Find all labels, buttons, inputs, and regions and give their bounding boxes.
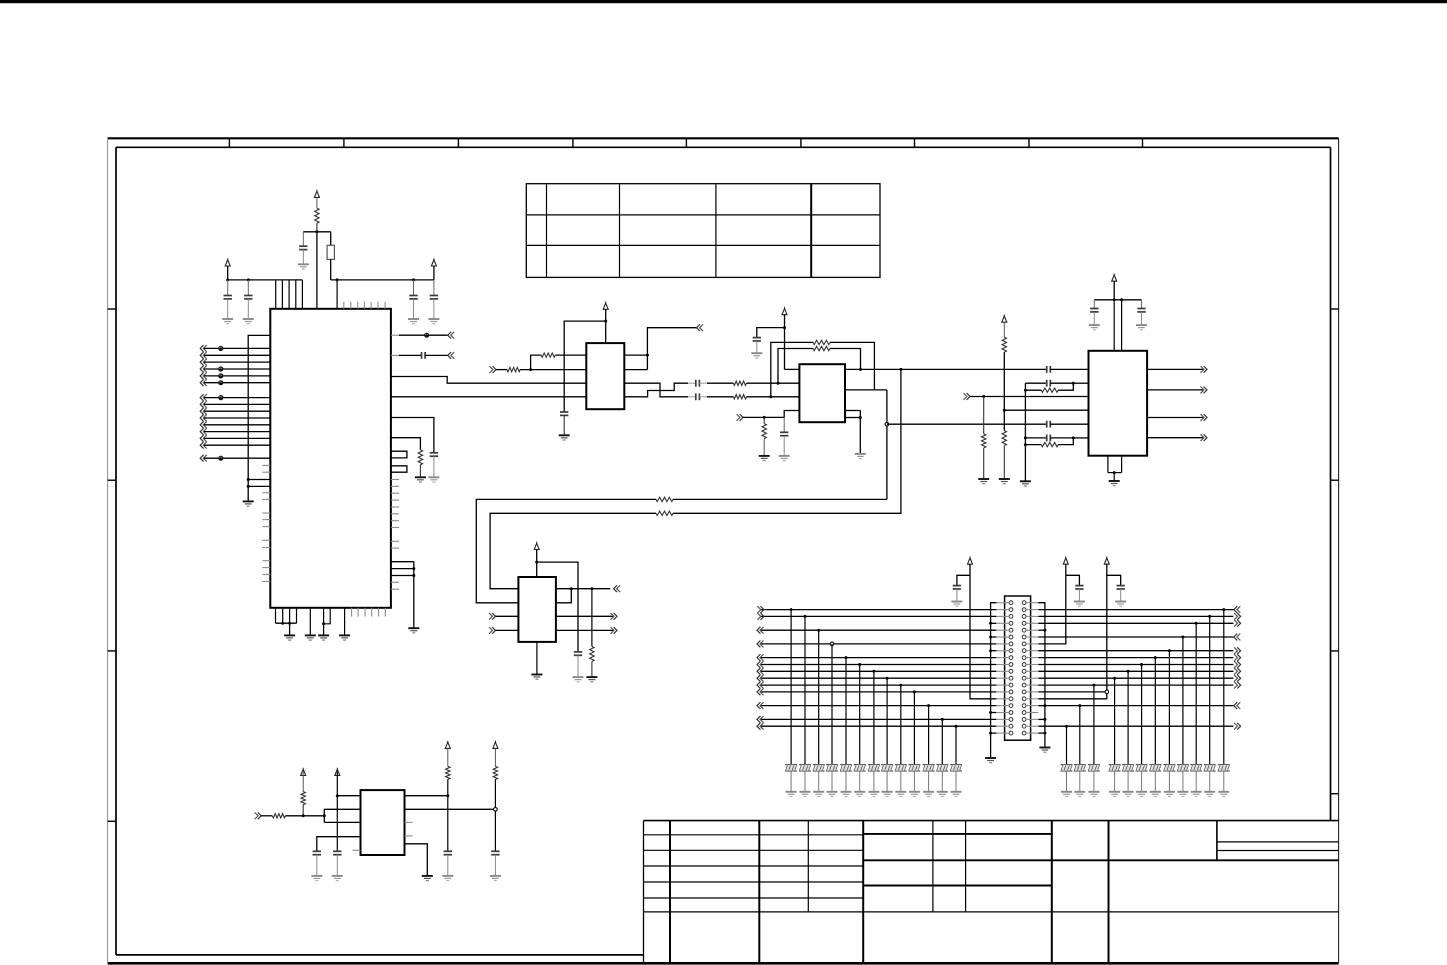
ground xyxy=(408,319,419,324)
wire input to U6 xyxy=(285,815,324,817)
wire J1 left row 10 xyxy=(761,664,997,666)
wire VCC6 to R12 xyxy=(1003,322,1005,337)
wire termination drop xyxy=(1114,678,1116,764)
capacitor C1 xyxy=(299,246,307,249)
wire VCC7 rail xyxy=(1094,299,1141,301)
wire to C5 xyxy=(433,280,435,296)
wire long pair A xyxy=(673,369,901,513)
junction xyxy=(989,711,992,714)
IC U5 xyxy=(1089,351,1148,456)
junction xyxy=(570,587,573,590)
ground xyxy=(1136,792,1147,797)
junction xyxy=(989,649,992,652)
capacitor C21 xyxy=(1075,586,1083,589)
ground xyxy=(786,792,797,797)
port PL5 xyxy=(757,627,764,634)
wire J1 left row 16 xyxy=(761,705,997,707)
wire to ground xyxy=(1209,771,1211,792)
port PR8 xyxy=(1234,647,1241,654)
U1 power pins left group xyxy=(276,280,303,309)
ground xyxy=(586,677,597,682)
wire termination drop xyxy=(790,610,792,765)
wire to ground xyxy=(1079,771,1081,792)
port P_OUT4 xyxy=(1201,434,1208,441)
wire VCC4 to U2 xyxy=(605,309,607,343)
ground xyxy=(1177,792,1188,797)
wire to ground xyxy=(1182,771,1184,792)
junction xyxy=(1003,409,1006,412)
port P_U4O2 xyxy=(611,613,618,620)
wire termination drop xyxy=(886,678,888,764)
ferrite bead xyxy=(218,366,223,371)
wire U2 feedback row xyxy=(555,354,586,356)
junction xyxy=(989,636,992,639)
resistor R14 xyxy=(982,434,986,448)
port PR2 xyxy=(1234,606,1241,613)
wire termination drop xyxy=(1141,665,1143,765)
ground xyxy=(1074,602,1085,607)
junction xyxy=(1072,436,1075,439)
port PB1 xyxy=(200,345,207,352)
wire xyxy=(496,615,519,617)
wire VCC10 to J1 xyxy=(1038,564,1065,644)
capacitor C7 xyxy=(430,453,438,456)
junction xyxy=(302,814,305,817)
junction xyxy=(1140,663,1143,666)
power flag VCC13 xyxy=(335,768,340,776)
wire U2 out1 xyxy=(624,354,647,356)
wire xyxy=(204,424,270,426)
junction xyxy=(226,278,229,281)
port PB4 xyxy=(200,366,207,373)
title block grid xyxy=(644,821,1339,963)
port PL16 xyxy=(757,702,764,709)
wire node XT to Y1 xyxy=(330,232,332,246)
port P_OUT2 xyxy=(1201,387,1208,394)
ground xyxy=(339,635,350,640)
port P_OUT3 xyxy=(1201,414,1208,421)
wire termination drop xyxy=(859,665,861,765)
RC network 1 node left xyxy=(1024,383,1026,481)
termination RT1 xyxy=(785,765,797,771)
resistor R3 xyxy=(541,353,555,357)
port PR1 xyxy=(448,332,455,339)
junction xyxy=(336,794,339,797)
port PC6 xyxy=(200,428,207,435)
port PL12 xyxy=(757,675,764,682)
port P_U2IN xyxy=(490,366,497,373)
ground xyxy=(951,792,962,797)
port PC5 xyxy=(200,421,207,428)
wire C13 to U5 xyxy=(1050,423,1088,425)
wire R21 down xyxy=(494,779,496,851)
termination RT7 xyxy=(868,765,880,771)
wire J1 left row 11 xyxy=(761,670,997,672)
wire U4 jog xyxy=(556,589,571,603)
wire C24 to ground xyxy=(316,855,318,876)
junction xyxy=(535,561,538,564)
wire to ground xyxy=(804,771,806,792)
ground xyxy=(854,792,865,797)
ground xyxy=(422,876,433,881)
ferrite bead xyxy=(424,333,429,338)
wire to ground xyxy=(1141,771,1143,792)
ground xyxy=(1150,792,1161,797)
ground xyxy=(1164,792,1175,797)
wire to ground xyxy=(873,771,875,792)
ground xyxy=(428,319,439,324)
wire divider to U5 xyxy=(1004,409,1088,411)
capacitor C3 xyxy=(244,296,252,299)
wire U1 out row1 xyxy=(391,334,448,336)
wire U3 out row2 xyxy=(845,390,887,500)
wire input bracket xyxy=(324,809,360,822)
capacitor C4 xyxy=(409,296,417,299)
resistor R10 xyxy=(656,497,673,501)
wire R15 right xyxy=(1058,383,1073,390)
wire to ground xyxy=(845,771,847,792)
resistor R21 xyxy=(493,766,497,779)
ground xyxy=(813,792,824,797)
junction xyxy=(590,587,593,590)
wire to ground xyxy=(1066,771,1068,792)
ground xyxy=(882,792,893,797)
junction xyxy=(412,278,415,281)
ground xyxy=(490,876,501,881)
wire U2 out2 xyxy=(624,369,647,371)
port PR6 xyxy=(1234,634,1241,641)
wire C14 to ground xyxy=(783,436,785,456)
IC U2 xyxy=(586,343,624,409)
wire VDD rail left xyxy=(228,279,303,281)
termination RT24 xyxy=(1074,765,1086,771)
termination RT3 xyxy=(813,765,825,771)
junction xyxy=(886,677,889,680)
port PR3 xyxy=(1234,613,1241,620)
wire termination drop xyxy=(1079,706,1081,765)
junction xyxy=(1127,670,1130,673)
ground xyxy=(779,456,790,461)
junction xyxy=(1024,443,1027,446)
power flag VCC2 xyxy=(225,258,230,266)
ground xyxy=(408,628,419,633)
power flag VCC1 xyxy=(314,190,319,198)
ground xyxy=(1039,748,1050,753)
port PR10 xyxy=(1234,661,1241,668)
port PL18 xyxy=(757,716,764,723)
wire termination drop xyxy=(831,644,833,765)
capacitor C11 xyxy=(753,338,761,341)
termination RT21 xyxy=(1122,765,1134,771)
wire U1 to U2 row A xyxy=(391,377,586,384)
junction xyxy=(817,629,820,632)
wire U3 out row to U5 xyxy=(845,368,1046,370)
termination RT25 xyxy=(1061,765,1073,771)
junction xyxy=(412,567,415,570)
resistor R4 xyxy=(507,367,520,371)
wire U1 to U2 row B xyxy=(391,396,586,398)
ferrite bead xyxy=(218,380,223,385)
wire VDD rail right xyxy=(331,279,434,281)
termination RT6 xyxy=(854,765,866,771)
wire R11 to ground xyxy=(763,439,765,456)
power flag VCC8 xyxy=(534,542,539,550)
port PC7 xyxy=(200,435,207,442)
wire C7 to ground xyxy=(433,456,435,477)
ground xyxy=(442,876,453,881)
IC U3 xyxy=(799,364,845,422)
termination RT17 xyxy=(1177,765,1189,771)
resistor R5 xyxy=(733,395,746,399)
wire input row xyxy=(496,369,507,371)
wire termination drop xyxy=(845,658,847,765)
ground xyxy=(1136,325,1147,330)
junction xyxy=(1208,615,1211,618)
capacitor C17 xyxy=(1090,309,1098,312)
capacitor C12 xyxy=(1047,366,1051,373)
wire R18 to input net xyxy=(302,805,304,816)
ground xyxy=(1109,481,1120,486)
U6 right unconnected pins xyxy=(405,822,413,836)
wire C21 to ground xyxy=(1078,589,1080,602)
ground xyxy=(1061,792,1072,797)
wire to C14 xyxy=(783,417,785,432)
wire U2 cross B xyxy=(624,383,696,397)
junction xyxy=(1154,656,1157,659)
connector J1 pins xyxy=(996,601,1038,735)
wire U6 out2 xyxy=(405,808,494,810)
junction xyxy=(1092,684,1095,687)
resistor R9 xyxy=(656,511,673,515)
ground xyxy=(909,792,920,797)
node tap xyxy=(885,422,889,426)
wire J1 left row 19 xyxy=(761,725,997,727)
wire VCC1 to R1 xyxy=(316,197,318,208)
ground xyxy=(1020,481,1031,486)
ground xyxy=(332,876,343,881)
page top black bar xyxy=(0,0,1447,3)
wire to R14 xyxy=(983,397,985,434)
resistor R8 xyxy=(813,346,830,350)
capacitor C26 xyxy=(491,851,499,854)
wire termination drop xyxy=(818,630,820,764)
wire U1 mode row xyxy=(391,438,421,450)
port P_OUT1 xyxy=(1201,366,1208,373)
wire J1 right row 10 xyxy=(1038,664,1233,666)
port P_U5IN xyxy=(964,393,971,400)
ground xyxy=(573,677,584,682)
resistor R7 xyxy=(813,340,830,344)
capacitor C8 xyxy=(560,412,568,415)
wire xyxy=(496,629,519,631)
ground xyxy=(1123,792,1134,797)
wire feedback loop B xyxy=(778,349,813,384)
wire J1 right row 11 xyxy=(1038,670,1233,672)
wire U1 bottom pin xyxy=(344,608,346,636)
junction xyxy=(288,622,291,625)
port P_U4OUT xyxy=(614,585,621,592)
wire U5 output 2 xyxy=(1147,389,1203,391)
resistor R17 xyxy=(590,646,594,661)
wire termination drop xyxy=(913,692,915,765)
wire U1 jumper loop1 xyxy=(391,451,407,458)
wire U6 bottom pin xyxy=(405,844,428,876)
wire C4 to ground xyxy=(413,299,415,319)
junction xyxy=(446,794,449,797)
resistor R1 xyxy=(315,208,319,223)
wire termination drop xyxy=(955,726,957,764)
port PL9 xyxy=(757,654,764,661)
wire to C4 xyxy=(413,280,415,296)
wire RC2 cap row xyxy=(1025,437,1045,439)
port PL13 xyxy=(757,682,764,689)
wire VCC5 to U3 xyxy=(785,315,800,370)
junction xyxy=(913,690,916,693)
wire enable jog to pin xyxy=(784,411,799,418)
U1 bottom unconnected pins xyxy=(352,608,386,617)
power flag VCC10 xyxy=(1063,556,1068,564)
wire to R17 xyxy=(591,589,593,647)
wire termination drop xyxy=(1182,637,1184,764)
wire R17 to ground xyxy=(591,661,593,677)
wire divider mid xyxy=(1003,352,1005,431)
wire U1 out row2 xyxy=(391,354,422,356)
termination RT19 xyxy=(1149,765,1161,771)
wire J1 right row 8 xyxy=(1038,650,1233,652)
wire VCC15 to R21 xyxy=(494,748,496,766)
wire to ground xyxy=(886,771,888,792)
port P_U2OUT xyxy=(697,324,704,331)
wire R20 down xyxy=(447,779,449,851)
junction xyxy=(247,485,250,488)
wire U1 bottom pin pair xyxy=(324,608,331,636)
termination RT16 xyxy=(1190,765,1202,771)
wire VCC13 down xyxy=(336,771,338,851)
resistor R19 xyxy=(272,814,285,818)
termination RT22 xyxy=(1109,765,1121,771)
capacitor C10 xyxy=(696,380,700,387)
wire xyxy=(204,417,270,419)
wire J1 right row 13 xyxy=(1038,684,1233,686)
junction xyxy=(899,368,902,371)
port PR13 xyxy=(1234,682,1241,689)
resistor R15 xyxy=(1041,388,1058,392)
wire R16 right xyxy=(1058,438,1073,445)
pin wire U1 XTAL xyxy=(316,232,318,309)
U1 left unconnected pins xyxy=(262,465,270,581)
wire J1 row14 right xyxy=(1038,691,1105,693)
wire to ground xyxy=(1223,771,1225,792)
wire bus to pin xyxy=(248,485,270,487)
power flag VCC11 xyxy=(1104,556,1109,564)
junction xyxy=(899,684,902,687)
wire C19 to ground xyxy=(577,655,579,677)
node tap xyxy=(830,642,834,646)
wire xyxy=(204,361,270,363)
node tap xyxy=(494,808,498,812)
junction xyxy=(989,622,992,625)
wire to ground xyxy=(1093,771,1095,792)
capacitor C9 xyxy=(696,393,700,400)
port PL11 xyxy=(757,668,764,675)
port PC1 xyxy=(200,394,207,401)
wire termination drop xyxy=(900,685,902,764)
junction xyxy=(1113,471,1116,474)
junction xyxy=(955,725,958,728)
wire loop A right xyxy=(830,342,874,390)
port P_U4B xyxy=(489,627,496,634)
wire J1 left row 13 xyxy=(761,684,997,686)
port PL2 xyxy=(757,606,764,613)
wire R13 to ground xyxy=(1003,446,1005,479)
port PL19 xyxy=(757,723,764,730)
sheet inner border xyxy=(116,147,1339,955)
port PD1 xyxy=(200,455,207,462)
capacitor C13 xyxy=(1047,421,1051,428)
IC U4 xyxy=(518,577,556,642)
wire VCC2 to rail xyxy=(227,266,229,280)
power flag VCC9 xyxy=(968,556,973,564)
ground xyxy=(1191,792,1202,797)
wire to ground xyxy=(1168,771,1170,792)
ground xyxy=(243,501,254,506)
power flag VCC5 xyxy=(782,307,787,315)
port P_U3EN xyxy=(737,414,744,421)
wire xyxy=(204,437,270,439)
port P_U4O3 xyxy=(611,627,618,634)
ground xyxy=(1204,792,1215,797)
termination RT9 xyxy=(895,765,907,771)
wire R1 to node XT xyxy=(316,223,318,232)
termination RT10 xyxy=(909,765,921,771)
wire C1 to ground xyxy=(302,250,304,265)
ground xyxy=(1218,792,1229,797)
wire input xyxy=(261,815,272,817)
junction xyxy=(1024,436,1027,439)
wire C15 right xyxy=(1050,382,1073,384)
capacitor C15 xyxy=(1047,380,1051,387)
termination RT15 xyxy=(1204,765,1216,771)
wire VCC7 stem xyxy=(1113,281,1115,300)
junction xyxy=(872,670,875,673)
ground xyxy=(978,479,989,484)
port PL14 xyxy=(757,689,764,696)
junction xyxy=(790,608,793,611)
wire U4 out2 xyxy=(556,615,613,617)
wire RC2 to U5 xyxy=(1073,437,1088,439)
ground xyxy=(937,792,948,797)
junction xyxy=(412,574,415,577)
ground xyxy=(827,792,838,797)
wire J1 left ground bus xyxy=(991,603,997,758)
junction xyxy=(1043,718,1046,721)
port PC3 xyxy=(200,408,207,415)
termination RT11 xyxy=(923,765,935,771)
junction xyxy=(247,278,250,281)
junction xyxy=(777,382,780,385)
capacitor C25 xyxy=(444,851,452,854)
wire C22 to ground xyxy=(1120,589,1122,602)
wire termination drop xyxy=(1066,726,1068,764)
wire long pair B xyxy=(673,498,887,500)
ground xyxy=(284,635,295,640)
capacitor C20 xyxy=(953,586,961,589)
resistor R16 xyxy=(1041,442,1058,446)
wire VCC5 branch xyxy=(757,328,785,338)
junction xyxy=(1043,704,1046,707)
wire J1 right row 6 xyxy=(1038,636,1233,638)
wire R6 to U3 xyxy=(746,382,799,384)
